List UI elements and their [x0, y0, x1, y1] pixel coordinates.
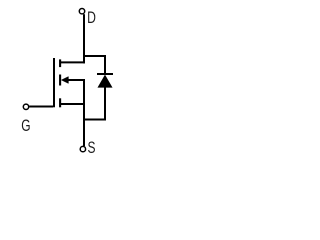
terminal D (open circle)	[79, 9, 84, 14]
wire gate lead	[29, 106, 53, 108]
transistor Q1 drain contact bar	[60, 61, 85, 63]
transistor Q1 body arrow	[61, 77, 68, 84]
transistor Q1 source contact bar	[60, 103, 85, 105]
transistor Q1 channel segment middle	[59, 75, 61, 86]
terminal G (open circle)	[23, 104, 28, 109]
diode D1 cathode bar	[97, 73, 113, 75]
transistor Q1 gate bar	[53, 58, 55, 107]
svg-text:S: S	[88, 139, 96, 157]
wire drain vertical	[83, 14, 85, 63]
transistor Q1 channel segment top	[59, 59, 61, 67]
svg-text:D: D	[87, 9, 96, 27]
wire source vertical	[83, 104, 85, 146]
svg-text:G: G	[21, 117, 30, 135]
terminal S (open circle)	[80, 146, 85, 151]
wire body contact to source	[68, 80, 84, 104]
wire diode lower lead	[84, 87, 105, 120]
diode D1 anode triangle	[98, 75, 112, 87]
transistor Q1 channel segment bottom	[59, 98, 61, 107]
wire diode branch top	[84, 56, 105, 74]
